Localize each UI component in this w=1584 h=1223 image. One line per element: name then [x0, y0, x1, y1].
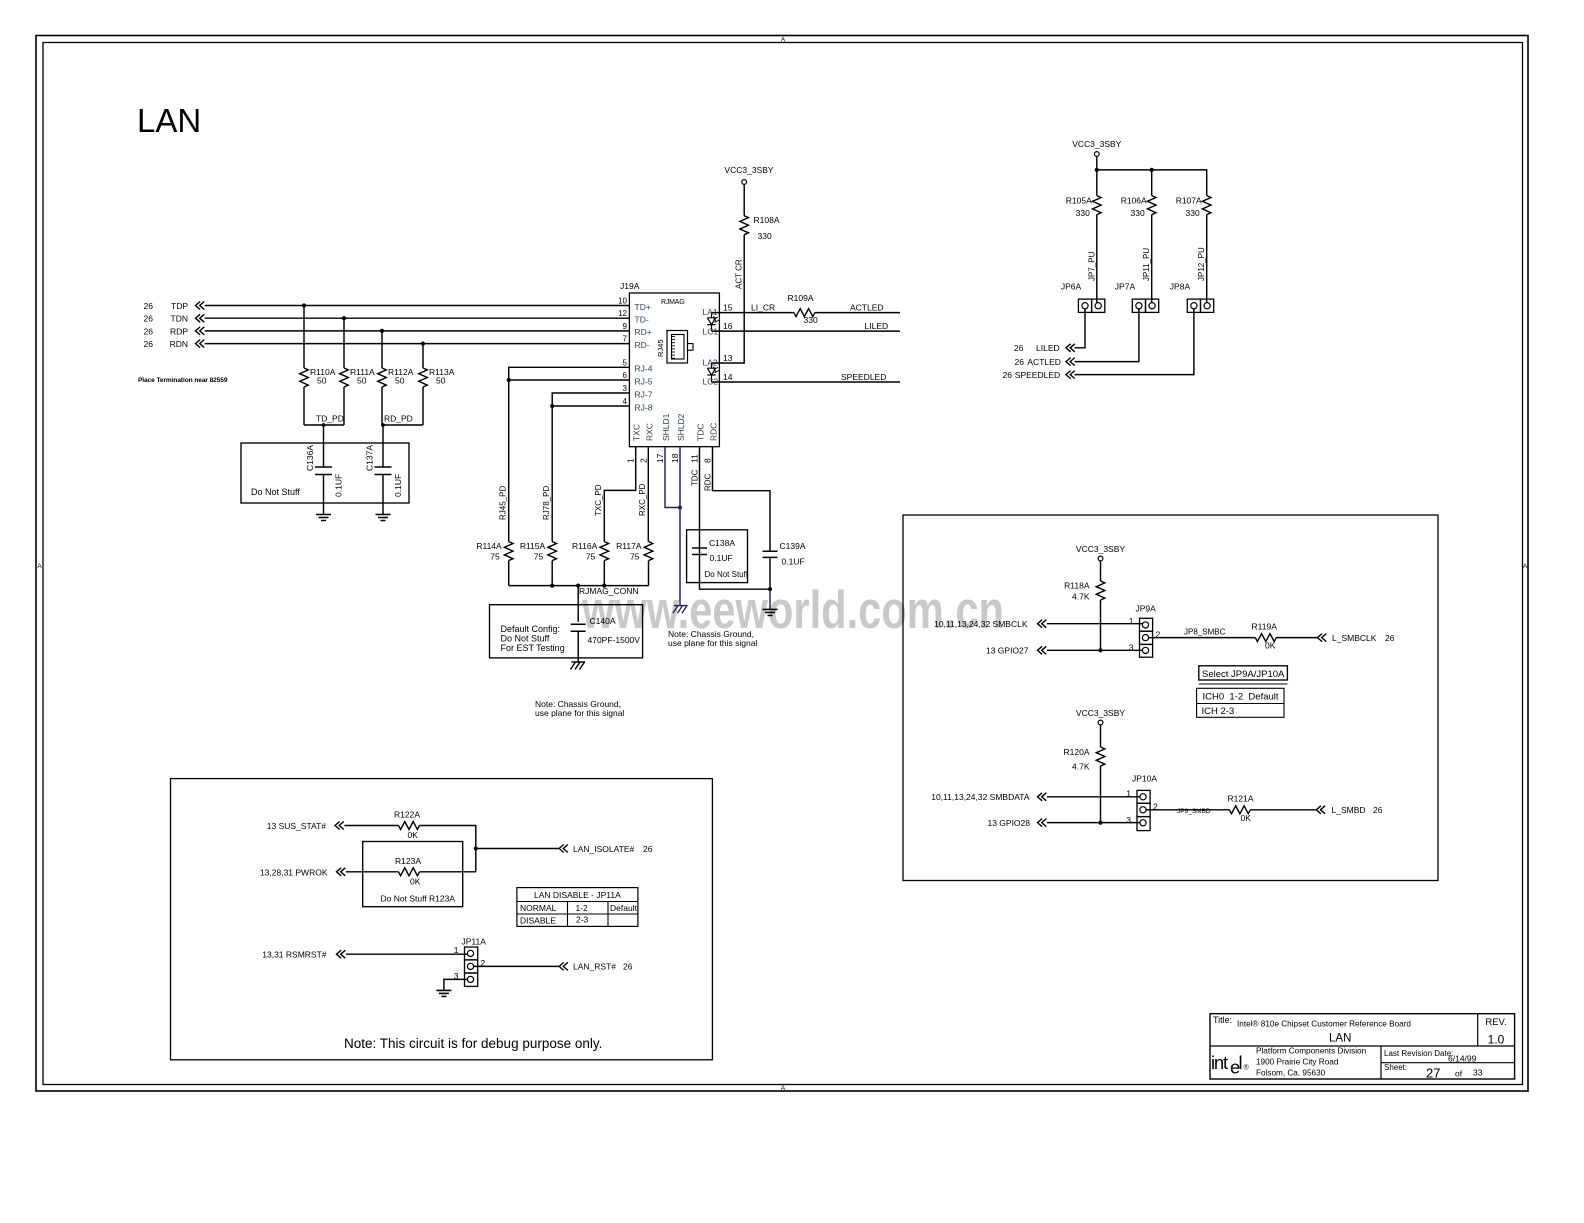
- svg-text:C136A: C136A: [305, 445, 315, 471]
- chassis ground SHLD: [673, 606, 688, 614]
- resistor R113A: [419, 368, 428, 387]
- wire RD_PD bracket: [382, 424, 423, 426]
- junction RJ78_PD: [550, 404, 554, 408]
- svg-text:330: 330: [758, 231, 772, 241]
- wire R112A bottom: [381, 387, 383, 425]
- svg-text:Last Revision Date:: Last Revision Date:: [1384, 1049, 1453, 1058]
- wire JP7_PU: [1096, 215, 1098, 303]
- off-page connector LILED: [1066, 344, 1075, 352]
- wire pin15 LI_CR: [712, 312, 794, 314]
- resistor R105A 330: [1093, 196, 1102, 215]
- svg-text:26: 26: [1015, 357, 1025, 367]
- svg-text:Default: Default: [610, 903, 638, 913]
- svg-text:Do Not Stuff R123A: Do Not Stuff R123A: [381, 894, 456, 904]
- junction TDC RDC: [768, 587, 772, 591]
- off-page connector LAN_RST#: [559, 962, 568, 970]
- table LAN DISABLE - JP11A: [517, 888, 638, 927]
- svg-text:0.1UF: 0.1UF: [710, 553, 733, 563]
- resistor R112A: [378, 368, 387, 387]
- wire JP8A to SPEEDLED: [1075, 309, 1194, 375]
- svg-text:10,11,13,24,32 SMBDATA: 10,11,13,24,32 SMBDATA: [931, 792, 1030, 802]
- wire RD_PD down: [382, 425, 384, 467]
- box do not stuff C136A C137A: [241, 443, 409, 503]
- svg-text:RJ-4: RJ-4: [635, 364, 653, 374]
- svg-text:9: 9: [623, 322, 628, 331]
- wire R117A bottom: [648, 561, 650, 586]
- junction GPIO28: [1098, 821, 1102, 825]
- wire R110A top: [303, 306, 305, 369]
- svg-text:RD+: RD+: [635, 327, 652, 337]
- svg-text:RJMAG: RJMAG: [661, 299, 685, 306]
- wire JP12_PU: [1206, 215, 1208, 303]
- svg-text:J19A: J19A: [620, 281, 640, 291]
- capacitor C137A: [375, 467, 392, 475]
- svg-text:JP7_PU: JP7_PU: [1087, 251, 1096, 281]
- svg-text:3: 3: [1129, 642, 1134, 652]
- svg-text:C140A: C140A: [590, 616, 616, 626]
- svg-text:13 GPIO28: 13 GPIO28: [987, 818, 1030, 828]
- svg-text:JP10A: JP10A: [1132, 774, 1157, 784]
- svg-text:VCC3_3SBY: VCC3_3SBY: [1076, 708, 1125, 718]
- svg-text:Intel® 810e Chipset Customer R: Intel® 810e Chipset Customer Reference B…: [1237, 1020, 1411, 1029]
- wire R111A top: [343, 318, 345, 368]
- svg-text:6: 6: [623, 371, 628, 380]
- wire to ground: [769, 589, 771, 609]
- svg-text:JP9A: JP9A: [1136, 604, 1157, 614]
- wire GPIO28: [1047, 822, 1140, 824]
- svg-text:R117A: R117A: [616, 541, 642, 551]
- resistor R110A: [300, 368, 309, 387]
- wire R112A top: [381, 331, 383, 368]
- wire R110A bottom: [303, 387, 305, 425]
- svg-text:TXC_PD: TXC_PD: [594, 484, 603, 516]
- svg-text:0K: 0K: [1241, 813, 1252, 823]
- svg-text:RJ-5: RJ-5: [635, 376, 653, 386]
- svg-text:26: 26: [144, 339, 154, 349]
- svg-text:26: 26: [643, 844, 653, 854]
- off-page connector RSMRST#: [337, 950, 346, 958]
- svg-text:470PF-1500V: 470PF-1500V: [588, 635, 641, 645]
- wire RJ-4/RJ-5 to R114A: [509, 367, 630, 541]
- capacitor C136A: [315, 467, 332, 475]
- resistor R119A 0K: [1255, 634, 1276, 642]
- svg-text:of: of: [1455, 1069, 1463, 1079]
- svg-text:1: 1: [626, 458, 636, 463]
- svg-text:0.1UF: 0.1UF: [334, 474, 344, 497]
- connector J19A RJMAG: [629, 293, 719, 447]
- svg-text:JP8A: JP8A: [1170, 282, 1191, 292]
- svg-text:0.1UF: 0.1UF: [782, 557, 805, 567]
- wire R111A bottom: [343, 387, 345, 425]
- resistor R115A 75: [548, 542, 557, 561]
- svg-text:Platform Components Division: Platform Components Division: [1256, 1047, 1367, 1056]
- wire RJMAG_CONN bus: [509, 585, 649, 587]
- wire ACTLED: [815, 312, 900, 314]
- svg-text:4.7K: 4.7K: [1072, 592, 1090, 602]
- svg-text:1: 1: [454, 945, 459, 955]
- svg-text:R108A: R108A: [754, 215, 780, 225]
- svg-text:0K: 0K: [1265, 641, 1276, 651]
- wire JP11_PU: [1151, 215, 1153, 303]
- svg-text:1.0: 1.0: [1488, 1033, 1505, 1047]
- svg-text:A: A: [37, 563, 42, 570]
- resistor R122A 0K: [399, 822, 420, 830]
- svg-text:6/14/99: 6/14/99: [1448, 1054, 1477, 1064]
- svg-text:3: 3: [623, 384, 628, 393]
- resistor R114A 75: [504, 542, 513, 561]
- resistor R109A 330: [794, 309, 815, 317]
- wire TDC: [700, 447, 771, 590]
- capacitor C138A 0.1UF: [692, 548, 707, 555]
- svg-text:75: 75: [490, 552, 500, 562]
- svg-text:26: 26: [144, 314, 154, 324]
- table ICH rows: [1197, 688, 1284, 717]
- svg-text:JP9_SMBD: JP9_SMBD: [1177, 808, 1211, 815]
- resistor R121A 0K: [1229, 806, 1250, 814]
- off-page connector PWROK: [337, 868, 346, 876]
- svg-text:Place Termination near 82559: Place Termination near 82559: [138, 377, 228, 384]
- off-page connector RDN: [196, 340, 205, 348]
- svg-text:50: 50: [317, 376, 327, 386]
- svg-text:JP6A: JP6A: [1061, 282, 1082, 292]
- off-page connector SPEEDLED: [1066, 371, 1075, 379]
- svg-text:1-2: 1-2: [576, 903, 589, 913]
- svg-text:1: 1: [1126, 789, 1131, 799]
- ground TDC/RDC: [763, 609, 778, 615]
- svg-text:26: 26: [1373, 805, 1383, 815]
- junction GPIO27: [1098, 648, 1102, 652]
- svg-text:0.1UF: 0.1UF: [393, 474, 403, 497]
- svg-text:14: 14: [723, 372, 733, 382]
- svg-text:12: 12: [618, 309, 627, 318]
- wire VCC bus: [1096, 156, 1098, 195]
- svg-text:50: 50: [357, 376, 367, 386]
- resistor R107A 330: [1202, 196, 1211, 215]
- svg-text:2: 2: [638, 458, 648, 463]
- box SMB select section: [903, 515, 1438, 881]
- svg-text:LI_CR: LI_CR: [751, 303, 775, 313]
- wire R122A to node: [420, 826, 476, 872]
- svg-text:TXC: TXC: [632, 424, 642, 441]
- junction VCC bus 1: [1095, 168, 1099, 172]
- svg-text:75: 75: [630, 552, 640, 562]
- svg-text:Note: This circuit is for debu: Note: This circuit is for debug purpose …: [344, 1036, 602, 1051]
- off-page connector L_SMBD: [1316, 806, 1325, 814]
- svg-text:C139A: C139A: [780, 541, 806, 551]
- junction C140A tap: [576, 584, 580, 588]
- svg-text:RXC_PD: RXC_PD: [638, 483, 647, 516]
- box do not stuff R123A: [363, 842, 463, 907]
- svg-text:75: 75: [534, 552, 544, 562]
- box debug section: [171, 779, 713, 1060]
- svg-text:Select JP9A/JP10A: Select JP9A/JP10A: [1202, 669, 1285, 680]
- svg-text:RJ78_PD: RJ78_PD: [542, 486, 551, 520]
- wire JP8_SMBC: [1149, 637, 1256, 639]
- svg-text:26: 26: [144, 301, 154, 311]
- svg-text:Do Not Stuff: Do Not Stuff: [501, 634, 550, 644]
- wire SMBCLK: [1047, 623, 1143, 625]
- svg-text:TDC: TDC: [696, 424, 706, 441]
- svg-text:VCC3_3SBY: VCC3_3SBY: [724, 165, 773, 175]
- svg-text:TDN: TDN: [171, 314, 188, 324]
- svg-text:REV.: REV.: [1485, 1017, 1506, 1028]
- ground JP11A: [436, 990, 451, 996]
- svg-text:int: int: [1211, 1052, 1228, 1073]
- box default config C140A: [490, 605, 643, 658]
- svg-text:R106A: R106A: [1121, 195, 1147, 205]
- svg-text:LAN DISABLE - JP11A: LAN DISABLE - JP11A: [534, 890, 621, 900]
- svg-text:3: 3: [1126, 815, 1131, 825]
- svg-text:R116A: R116A: [572, 541, 598, 551]
- svg-text:RXC: RXC: [644, 423, 654, 441]
- svg-text:VCC3_3SBY: VCC3_3SBY: [1072, 139, 1121, 149]
- svg-text:50: 50: [436, 376, 446, 386]
- svg-text:17: 17: [655, 453, 665, 463]
- svg-text:4.7K: 4.7K: [1072, 762, 1090, 772]
- svg-text:2-3: 2-3: [576, 915, 589, 925]
- svg-text:TDC: TDC: [691, 469, 700, 486]
- wire TXC to R116A: [604, 447, 635, 542]
- junction SHLD: [678, 505, 682, 509]
- svg-text:ACTLED: ACTLED: [850, 303, 884, 313]
- svg-text:A: A: [781, 1085, 786, 1092]
- svg-text:1900 Prairie City Road: 1900 Prairie City Road: [1256, 1058, 1339, 1067]
- svg-text:Folsom, Ca. 95630: Folsom, Ca. 95630: [1256, 1069, 1326, 1078]
- svg-text:13 GPIO27: 13 GPIO27: [986, 646, 1029, 656]
- junction VCC bus 2: [1150, 168, 1154, 172]
- table select JP9A/JP10A: [1199, 666, 1288, 680]
- resistor R118A 4.7K: [1096, 581, 1105, 600]
- svg-text:JP11_PU: JP11_PU: [1142, 248, 1151, 281]
- wire VCC to R118A: [1100, 561, 1102, 581]
- capacitor C139A 0.1UF: [763, 551, 778, 557]
- svg-text:330: 330: [1186, 208, 1200, 218]
- resistor R117A 75: [644, 542, 653, 561]
- svg-text:4: 4: [623, 397, 628, 406]
- svg-text:LAN: LAN: [137, 102, 201, 139]
- svg-text:330: 330: [804, 315, 818, 325]
- svg-text:26: 26: [1385, 633, 1395, 643]
- svg-text:TD_PD: TD_PD: [316, 414, 344, 424]
- svg-text:DISABLE: DISABLE: [520, 916, 556, 926]
- svg-text:Default Config:: Default Config:: [501, 624, 561, 634]
- svg-text:R109A: R109A: [788, 293, 814, 303]
- svg-text:RJ45: RJ45: [656, 339, 665, 357]
- svg-text:R114A: R114A: [476, 541, 502, 551]
- off-page connector L_SMBCLK: [1318, 634, 1327, 642]
- svg-text:RJ-7: RJ-7: [635, 389, 653, 399]
- svg-text:RJMAG_CONN: RJMAG_CONN: [579, 586, 639, 596]
- svg-text:Do Not Stuff: Do Not Stuff: [705, 570, 749, 579]
- svg-text:TD-: TD-: [635, 315, 649, 325]
- svg-text:ACTLED: ACTLED: [1027, 357, 1061, 367]
- svg-text:R118A: R118A: [1064, 581, 1090, 591]
- wire R113A top: [422, 344, 424, 368]
- wire R118A to GPIO27: [1100, 600, 1102, 650]
- svg-text:1: 1: [1129, 616, 1134, 626]
- off-page connector GPIO27: [1038, 646, 1047, 654]
- svg-text:ICH0 1-2 Default: ICH0 1-2 Default: [1203, 692, 1279, 703]
- off-page connector SMBDATA: [1038, 793, 1047, 801]
- wire RJ-7/RJ-8 to R115A: [552, 393, 629, 542]
- svg-text:R121A: R121A: [1228, 794, 1254, 804]
- svg-text:RD_PD: RD_PD: [384, 414, 413, 424]
- svg-text:VCC3_3SBY: VCC3_3SBY: [1076, 544, 1125, 554]
- svg-text:JP11A: JP11A: [462, 937, 487, 947]
- svg-text:330: 330: [1076, 208, 1090, 218]
- off-page connector TDN: [196, 314, 205, 322]
- off-page connector TDP: [196, 302, 205, 310]
- wire RDN: [205, 343, 630, 345]
- resistor R106A 330: [1147, 196, 1156, 215]
- svg-text:LILED: LILED: [865, 321, 889, 331]
- junction R115A: [550, 584, 554, 588]
- svg-text:R119A: R119A: [1252, 622, 1278, 632]
- svg-text:11: 11: [690, 454, 700, 463]
- svg-text:L_SMBCLK: L_SMBCLK: [1332, 633, 1377, 643]
- wire LILED pin16: [712, 330, 901, 332]
- wire C137A to ground: [382, 475, 384, 515]
- svg-text:26: 26: [144, 326, 154, 336]
- off-page connector RDP: [196, 327, 205, 335]
- wire C140A to chassis ground: [577, 631, 579, 662]
- svg-text:TD+: TD+: [635, 302, 651, 312]
- svg-text:C137A: C137A: [365, 445, 375, 471]
- svg-text:Do Not Stuff: Do Not Stuff: [251, 487, 300, 497]
- svg-text:16: 16: [723, 321, 733, 331]
- svg-text:RJ45_PD: RJ45_PD: [499, 486, 508, 520]
- junction TDN: [342, 316, 346, 320]
- svg-text:LAN: LAN: [1329, 1033, 1351, 1045]
- svg-text:13 SUS_STAT#: 13 SUS_STAT#: [267, 821, 326, 831]
- svg-text:5: 5: [623, 358, 628, 367]
- ground C137A: [376, 515, 391, 521]
- svg-text:15: 15: [723, 303, 733, 313]
- wire L_SMBD: [1250, 809, 1316, 811]
- svg-text:JP12_PU: JP12_PU: [1197, 247, 1206, 281]
- svg-text:33: 33: [1473, 1068, 1483, 1078]
- svg-text:LAN_RST#: LAN_RST#: [573, 962, 616, 972]
- wire GPIO27: [1047, 649, 1143, 651]
- wire SPEEDLED pin14: [712, 381, 901, 383]
- svg-text:LILED: LILED: [1036, 343, 1060, 353]
- wire VCC to R108A: [743, 184, 745, 215]
- wire RDP: [205, 330, 630, 332]
- svg-text:75: 75: [586, 552, 596, 562]
- svg-text:L_SMBD: L_SMBD: [1332, 805, 1366, 815]
- wire LAN_ISOLATE#: [476, 848, 559, 850]
- svg-text:13,31 RSMRST#: 13,31 RSMRST#: [262, 950, 327, 960]
- resistor R111A: [340, 368, 349, 387]
- svg-text:www.eeworld.com.cn: www.eeworld.com.cn: [581, 581, 1004, 640]
- svg-text:27: 27: [1426, 1066, 1440, 1081]
- svg-text:Sheet:: Sheet:: [1384, 1063, 1407, 1072]
- off-page connector LAN_ISOLATE#: [559, 845, 568, 853]
- wire TDP: [205, 305, 630, 307]
- svg-text:50: 50: [395, 376, 405, 386]
- capacitor C140A 470PF-1500V: [571, 624, 586, 631]
- LED LA1/LC1: [707, 313, 715, 332]
- svg-text:RDN: RDN: [170, 339, 188, 349]
- svg-text:SPEEDLED: SPEEDLED: [1015, 370, 1060, 380]
- wire PWROK: [346, 871, 399, 873]
- wire JP7A to ACTLED: [1075, 309, 1139, 362]
- off-page connector ACTLED: [1066, 358, 1075, 366]
- wire SMBDATA: [1047, 796, 1140, 798]
- svg-text:SHLD2: SHLD2: [676, 413, 686, 441]
- wire R115A bottom: [551, 561, 553, 586]
- svg-text:0K: 0K: [408, 830, 419, 840]
- wire SHLD1/SHLD2: [665, 447, 680, 508]
- svg-text:ACT CR: ACT CR: [735, 259, 744, 289]
- svg-text:RDC: RDC: [704, 473, 713, 491]
- junction RDN: [421, 342, 425, 346]
- wire TDN: [205, 317, 630, 319]
- wire TD_PD bracket: [304, 424, 344, 426]
- svg-text:LAN_ISOLATE#: LAN_ISOLATE#: [573, 844, 635, 854]
- junction LAN_ISOLATE#: [474, 846, 478, 850]
- svg-text:use plane for this signal: use plane for this signal: [668, 638, 757, 648]
- wire RDC: [713, 447, 771, 552]
- svg-text:TDP: TDP: [171, 301, 188, 311]
- wire R116A bottom: [603, 561, 605, 586]
- resistor R108A 330: [740, 216, 749, 235]
- svg-text:13,28,31 PWROK: 13,28,31 PWROK: [260, 868, 328, 878]
- LED LA2/LC2: [707, 363, 715, 382]
- svg-text:RDC: RDC: [709, 423, 719, 441]
- svg-text:®: ®: [1244, 1064, 1250, 1072]
- svg-text:use plane for this signal: use plane for this signal: [535, 708, 624, 718]
- title block: [1210, 1014, 1515, 1079]
- resistor R123A 0K: [399, 868, 420, 876]
- wire JP11A pin3 to ground: [444, 979, 468, 990]
- svg-text:26: 26: [623, 962, 633, 972]
- svg-text:C138A: C138A: [709, 538, 735, 548]
- junction RDP: [380, 329, 384, 333]
- wire R120A to GPIO28: [1100, 766, 1102, 823]
- svg-text:10: 10: [618, 297, 627, 306]
- svg-text:JP8_SMBC: JP8_SMBC: [1184, 628, 1226, 637]
- svg-text:7: 7: [623, 335, 628, 344]
- resistor R120A 4.7K: [1096, 747, 1105, 766]
- svg-text:0K: 0K: [410, 877, 421, 887]
- svg-text:A: A: [1523, 563, 1528, 570]
- svg-text:R107A: R107A: [1176, 195, 1202, 205]
- svg-text:R122A: R122A: [394, 810, 420, 820]
- svg-text:l: l: [1239, 1052, 1243, 1073]
- svg-text:SPEEDLED: SPEEDLED: [841, 372, 886, 382]
- svg-text:R123A: R123A: [395, 856, 421, 866]
- chassis ground C140A: [571, 662, 586, 670]
- svg-text:18: 18: [670, 453, 680, 463]
- svg-text:RD-: RD-: [635, 340, 650, 350]
- svg-text:330: 330: [1131, 208, 1145, 218]
- svg-text:JP7A: JP7A: [1115, 282, 1136, 292]
- svg-text:RDP: RDP: [170, 326, 188, 336]
- off-page connector GPIO28: [1038, 819, 1047, 827]
- junction R116A: [602, 584, 606, 588]
- wire LAN_RST#: [474, 965, 559, 967]
- svg-text:R115A: R115A: [520, 541, 546, 551]
- wire RXC to R117A: [647, 447, 649, 542]
- wire TD_PD down: [323, 425, 325, 467]
- svg-text:8: 8: [703, 458, 713, 463]
- svg-text:26: 26: [1014, 343, 1024, 353]
- resistor R116A 75: [600, 542, 609, 561]
- off-page connector SUS_STAT#: [335, 822, 344, 830]
- capacitor C138A box: [687, 530, 748, 583]
- wire L_SMBCLK: [1276, 637, 1317, 639]
